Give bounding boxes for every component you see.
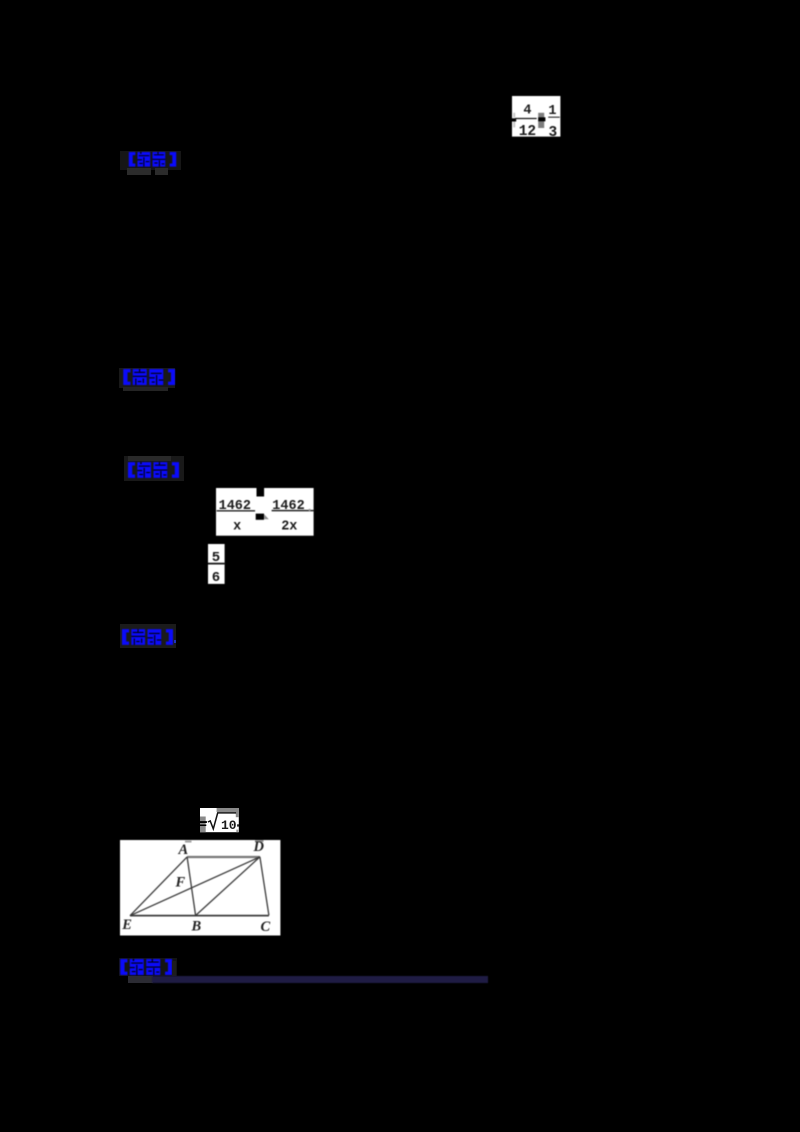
segment BD bbox=[195, 857, 259, 916]
svg-text:6: 6 bbox=[212, 570, 220, 584]
grey left column bbox=[200, 816, 206, 832]
grey tick above D bbox=[255, 840, 264, 842]
grey tick above A bbox=[185, 840, 192, 842]
fraction bar bbox=[208, 562, 225, 564]
fraction bar 2 bbox=[548, 116, 560, 117]
equals black square bbox=[538, 117, 545, 121]
side EA bbox=[130, 857, 187, 916]
equation patch: sqrt(10) bbox=[200, 808, 239, 833]
blue label 4 (answer 2) bbox=[120, 624, 176, 649]
svg-text:B: B bbox=[190, 918, 201, 934]
radical sign bbox=[208, 813, 236, 829]
svg-text:10: 10 bbox=[221, 818, 237, 833]
equals black square bbox=[256, 513, 264, 519]
side AD bbox=[187, 856, 260, 858]
grey wedge bbox=[264, 514, 269, 519]
svg-text:3: 3 bbox=[548, 124, 557, 136]
svg-text:x: x bbox=[233, 519, 241, 534]
blue label 3 (answer-solve) bbox=[124, 456, 184, 481]
clipped minus at left bbox=[512, 118, 516, 121]
grey right column bbox=[236, 808, 239, 817]
fraction bar left bbox=[217, 510, 256, 511]
grey block of equals bbox=[538, 112, 544, 127]
svg-text:4: 4 bbox=[523, 103, 531, 118]
svg-text:F: F bbox=[174, 874, 185, 890]
fraction bar bbox=[515, 118, 537, 119]
equation patch: 1462/x = 1462/2x bbox=[216, 488, 314, 536]
svg-text:A: A bbox=[177, 841, 188, 857]
navy underline bbox=[152, 976, 488, 983]
side DC bbox=[260, 857, 269, 915]
light grey slivers at left bbox=[513, 112, 515, 117]
diagonal ED bbox=[130, 857, 260, 916]
grey top-right band bbox=[217, 808, 239, 812]
svg-text:1: 1 bbox=[548, 103, 556, 118]
geometry figure bbox=[120, 840, 281, 936]
grey speck bottom-right bbox=[236, 829, 238, 832]
side EC bbox=[130, 914, 269, 916]
svg-text:D: D bbox=[252, 840, 264, 855]
svg-text:E: E bbox=[121, 917, 132, 933]
svg-text:12: 12 bbox=[518, 123, 535, 136]
fraction bar right bbox=[272, 509, 314, 510]
blue label 1 (analysis) bbox=[120, 151, 181, 170]
equation patch: 5/6 bbox=[208, 544, 225, 584]
svg-text:1462: 1462 bbox=[219, 498, 251, 513]
blue label 5 (comment) bbox=[119, 958, 177, 977]
segment AB bbox=[187, 857, 196, 916]
svg-text:C: C bbox=[260, 919, 270, 935]
blue label 2 (answer) bbox=[119, 368, 176, 388]
clipped equals at left bbox=[200, 821, 207, 823]
equation patch: 4/12 = 1/3 bbox=[512, 96, 561, 137]
black notch at top between the two fractions bbox=[257, 488, 265, 497]
grey speck bbox=[309, 508, 311, 510]
svg-text:2x: 2x bbox=[281, 519, 297, 534]
svg-text:1462: 1462 bbox=[273, 498, 305, 513]
black speck right bbox=[237, 824, 239, 826]
